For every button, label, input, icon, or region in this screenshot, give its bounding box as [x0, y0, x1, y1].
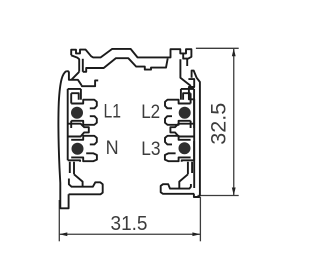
arrow left 31.5 [59, 232, 67, 236]
labels [104, 101, 161, 160]
channel from top bar down to upper finger [80, 89, 82, 100]
extension line bottom right for 31.5 [199, 197, 201, 241]
extension line top right [196, 47, 239, 49]
top bar [68, 89, 81, 100]
conductor dots [71, 107, 191, 155]
inner ceiling [83, 58, 168, 72]
left outer wall curve [58, 71, 68, 208]
funnel diagonal from leg to shelf [72, 72, 80, 80]
L1 pocket [68, 89, 97, 128]
left interior ledge [82, 80, 99, 86]
svg-text:31.5: 31.5 [111, 212, 148, 235]
vertical dimension line 32.5 [233, 48, 235, 195]
right pockets (mirrored) [165, 89, 194, 162]
dimension lines [59, 48, 238, 241]
right bump inner curve down to pocket [180, 59, 191, 86]
outer top edge with castle bumps [71, 49, 191, 59]
right wall top wedge [192, 71, 200, 197]
lower finger [71, 153, 97, 161]
bottom bar [68, 160, 80, 162]
right foot tab [188, 162, 192, 175]
upper finger [71, 136, 97, 145]
right foot ramp [179, 174, 188, 188]
L2 pocket [191, 89, 195, 128]
castle bump 1 bottom and leg [71, 55, 79, 72]
conductor L1 [71, 107, 83, 119]
L3 pocket [183, 137, 194, 161]
left wall top hook [66, 71, 81, 85]
arrow down 32.5 [232, 188, 236, 196]
N pocket [68, 136, 97, 162]
back bar [68, 89, 72, 128]
right bump notch inner cavity [183, 53, 187, 66]
arrowheads [59, 48, 235, 236]
conductor N [72, 143, 84, 155]
svg-text:N: N [106, 137, 119, 159]
svg-text:L2: L2 [141, 101, 160, 123]
extension line bottom left for 31.5 [58, 200, 60, 241]
extension line bottom right for 32.5 [198, 195, 239, 197]
left foot plate [69, 179, 103, 195]
right wall foot bottom [194, 194, 200, 197]
right foot plate [161, 184, 195, 194]
svg-text:L3: L3 [141, 138, 160, 160]
profile [58, 49, 199, 208]
svg-text:32.5: 32.5 [206, 103, 230, 145]
left divider [68, 124, 89, 141]
horizontal dimension line 31.5 [59, 233, 200, 235]
conductor L2 [179, 107, 191, 119]
right divider [170, 124, 194, 137]
arrow up 32.5 [232, 48, 236, 56]
svg-text:L1: L1 [104, 101, 122, 123]
right wall inner with screw channel [188, 79, 194, 188]
left foot tab [70, 162, 74, 175]
arrow right 31.5 [192, 232, 200, 236]
upper finger [71, 100, 97, 109]
conductor L3 [179, 142, 191, 154]
lower finger [71, 116, 97, 125]
left foot ramp [74, 174, 83, 186]
